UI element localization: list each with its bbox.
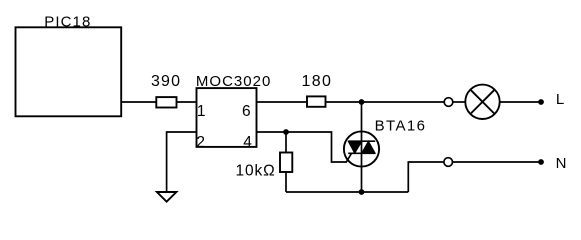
svg-text:N: N [556,155,567,172]
svg-text:4: 4 [243,134,252,151]
node junction pin4 / R3 [283,129,289,135]
lamp LP1 cross stroke 2 [470,90,494,114]
svg-text:BTA16: BTA16 [375,118,425,135]
wire N terminal to N dot [453,161,542,163]
wire bottom rail [286,191,408,193]
triac Q1 circle [344,131,379,166]
wire bottom rail to N terminal [408,162,444,192]
svg-text:390: 390 [151,73,180,90]
wire U2 pin 4 to gate and node [257,132,352,162]
wire L terminal to lamp [453,101,465,103]
svg-text:10kΩ: 10kΩ [236,163,275,180]
triac Q1 right triangle [362,141,376,153]
svg-text:2: 2 [196,134,205,151]
wire lamp to L dot [500,101,541,103]
node L endpoint dot [538,99,544,105]
svg-text:6: 6 [242,103,251,120]
svg-text:180: 180 [302,73,331,90]
triac Q1 bottom bar [348,152,375,154]
svg-text:PIC18: PIC18 [44,14,90,31]
triac Q1 top bar [348,140,375,142]
microcontroller U1 box PIC18 [16,27,122,116]
wire U2 pin 2 to ground [167,132,197,192]
svg-text:1: 1 [197,103,206,120]
wire PIC18 to R1 [121,101,156,103]
svg-text:MOC3020: MOC3020 [196,73,270,90]
triac Q1 left triangle [348,141,362,153]
wire triac vertical MT2 to MT1 [361,102,363,192]
lamp LP1 circle [465,85,499,119]
resistor R3 10k body [280,153,292,173]
resistor R1 390 body [156,97,176,107]
wire R2 to L terminal [326,101,445,103]
node junction on L wire above triac [359,99,365,105]
wire R3 to bottom rail [285,172,287,192]
wire R1 to U2 pin 1 [177,101,197,103]
node junction triac MT1 on bottom rail [359,189,365,195]
lamp LP1 cross stroke 1 [470,90,494,114]
wire U2 pin 6 to R2 [257,101,308,103]
svg-text:L: L [556,91,564,108]
wire node to R3 [285,132,287,153]
node N endpoint dot [538,159,544,165]
resistor R2 180 body [307,96,326,106]
optocoupler U2 box MOC3020 [197,88,257,147]
ground [157,192,177,202]
terminal circle L [444,98,453,107]
terminal circle N [444,158,453,167]
